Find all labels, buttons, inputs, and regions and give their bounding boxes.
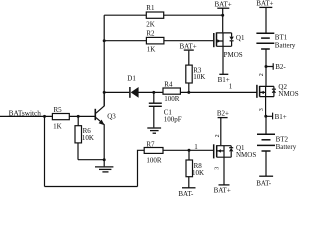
label 100pF (C1) [164, 115, 182, 123]
wire B2- to Q2 [265, 67, 267, 86]
svg-text:2: 2 [259, 73, 265, 76]
svg-text:Battery: Battery [275, 42, 296, 50]
label 100R (R7) [146, 157, 162, 165]
svg-text:10K: 10K [193, 73, 205, 81]
junction B2- [265, 65, 268, 68]
wire up to R7 [138, 150, 145, 186]
Q2 body diode bar [272, 88, 276, 90]
pin 2 (Q2) [259, 73, 265, 76]
emitter arrow Q3 [99, 120, 105, 126]
svg-text:B2-: B2- [275, 63, 286, 71]
port B1+ (under Q1) [219, 73, 228, 75]
label 10K (R8) [192, 169, 204, 177]
svg-text:NMOS: NMOS [278, 90, 298, 98]
svg-text:NMOS: NMOS [236, 151, 256, 159]
label R6 [83, 127, 92, 135]
wire D1 row [104, 91, 257, 93]
pin 3 (Q4) [215, 167, 221, 170]
wire R6 bottom to emitter junction [78, 159, 104, 161]
Q2 body diode [272, 89, 276, 93]
junction R5/R6/base [77, 115, 80, 118]
wire left bus vertical [103, 15, 105, 106]
label 100R (R4) [164, 95, 180, 103]
label Q2 [278, 83, 287, 91]
wire bottom run [45, 186, 138, 188]
svg-text:Q1: Q1 [236, 34, 245, 42]
label Q3 [107, 112, 116, 120]
diode D1 triangle [131, 87, 139, 98]
pin 2 (Q4) [215, 134, 221, 137]
label B1+ (right) [275, 113, 287, 121]
label C1 [164, 108, 173, 116]
svg-text:D1: D1 [127, 75, 136, 83]
resistor R6 [75, 116, 82, 159]
svg-text:1K: 1K [53, 123, 62, 131]
svg-text:BAT+: BAT+ [214, 186, 231, 194]
wire R2 row [104, 40, 213, 42]
capacitor C1 [149, 92, 162, 127]
label B2- [275, 63, 286, 71]
label R7 [146, 140, 155, 148]
label 10K (R6) [82, 134, 94, 142]
Q1 body diode bar [230, 40, 234, 42]
port B1+ tick (right) [266, 113, 273, 120]
Q4 substrate arrow [218, 149, 221, 152]
svg-text:1: 1 [194, 143, 198, 151]
label B1+ (under Q1) [218, 76, 230, 84]
ground (under C1) [147, 128, 161, 133]
pin 3 (Q2) [259, 108, 265, 111]
junction B1+ right [264, 115, 267, 118]
resistor R5 [52, 114, 69, 120]
node BATswitch label [9, 109, 42, 118]
label Battery (BT2) [276, 143, 297, 151]
junction R1/BAT+ [221, 14, 224, 17]
label BAT+ (above R3) [180, 42, 197, 50]
svg-text:BAT-: BAT- [178, 190, 194, 198]
port B2+ (above Q4) [218, 118, 228, 146]
svg-text:R4: R4 [164, 81, 173, 89]
ground (under Q3) [95, 160, 113, 172]
label D1 [127, 75, 136, 83]
svg-text:BAT+: BAT+ [256, 0, 273, 8]
svg-text:BAT+: BAT+ [215, 1, 232, 9]
svg-text:B2+: B2+ [217, 110, 229, 118]
label 1K (R2) [147, 46, 156, 54]
svg-text:R2: R2 [146, 29, 155, 37]
label 2K (R1) [146, 20, 155, 28]
power BAT+ (top right) [259, 7, 272, 33]
wire Q1 drain down [222, 46, 224, 74]
label R3 [193, 66, 202, 74]
svg-text:BAT-: BAT- [256, 179, 272, 187]
junction R2 tee [103, 39, 106, 42]
transistor Q1 PMOS [214, 32, 232, 47]
resistor R7 [144, 148, 163, 154]
label BAT+ (top middle) [215, 1, 232, 9]
label B2+ [217, 110, 229, 118]
svg-text:1K: 1K [147, 46, 156, 54]
svg-text:Q3: Q3 [107, 112, 116, 120]
label R4 [164, 81, 173, 89]
transistor Q3 [95, 92, 104, 159]
resistor R8 [186, 150, 193, 188]
svg-text:100R: 100R [164, 95, 180, 103]
svg-text:BATswitch: BATswitch [9, 109, 42, 118]
svg-text:B1+: B1+ [218, 76, 230, 84]
resistor R1 [146, 12, 163, 18]
transistor Q2 NMOS [257, 85, 274, 98]
svg-text:2K: 2K [146, 20, 155, 28]
label NMOS (Q4) [236, 151, 256, 159]
wire BAT+ to Q1 [222, 15, 224, 32]
power BAT+ (above R3) [184, 49, 194, 51]
label BAT- (under R8) [178, 190, 194, 198]
wire left vertical drop [44, 116, 46, 186]
label BAT+ (top right) [256, 0, 273, 8]
label R1 [146, 4, 155, 12]
resistor R3 [186, 51, 192, 93]
label BT1 [275, 33, 288, 41]
resistor R2 [146, 37, 164, 44]
wire R7 row [163, 149, 213, 151]
svg-text:R7: R7 [146, 140, 155, 148]
svg-text:100pF: 100pF [164, 115, 182, 123]
svg-text:3: 3 [215, 167, 221, 170]
battery BT1 [256, 33, 274, 66]
resistor R4 [163, 88, 180, 94]
port B2- tick [266, 63, 273, 70]
label Q1 [236, 34, 245, 42]
junction emitter/ground [103, 158, 106, 161]
label R5 [54, 106, 63, 114]
power BAT- (bottom right) [259, 175, 273, 177]
wire Q2 source down [265, 97, 267, 134]
label PMOS [224, 51, 243, 59]
node 1 label (upper) [229, 83, 233, 91]
diode D1 [129, 87, 131, 98]
svg-text:10K: 10K [192, 169, 204, 177]
label BAT- (bottom right) [256, 179, 272, 187]
power BAT+ (bottom) [219, 184, 230, 186]
svg-text:BAT+: BAT+ [180, 42, 197, 50]
svg-text:R1: R1 [146, 4, 155, 12]
junction R3 tap [187, 91, 190, 94]
junction R8 tap [188, 149, 191, 152]
Q1 substrate arrow [217, 39, 220, 42]
label Q4 [236, 144, 245, 152]
junction left drop [43, 115, 46, 118]
power BAT- (under R8) [182, 187, 196, 189]
wire BATswitch row left [0, 115, 95, 117]
junction D1 row tee [103, 91, 106, 94]
svg-text:3: 3 [259, 108, 265, 111]
svg-text:BT1: BT1 [275, 33, 288, 41]
node 1 label (lower) [194, 143, 198, 151]
Q1 body diode [229, 37, 233, 41]
label BAT+ (bottom) [214, 186, 231, 194]
label R2 [146, 29, 155, 37]
Q2 substrate arrow [260, 91, 263, 94]
svg-text:Battery: Battery [276, 143, 297, 151]
label 1K (R5) [53, 123, 62, 131]
label NMOS (Q2) [278, 90, 298, 98]
wire R1 row [104, 14, 223, 16]
transistor Q4 NMOS [214, 144, 232, 158]
svg-text:100R: 100R [146, 157, 162, 165]
svg-text:2: 2 [215, 134, 221, 137]
label R8 [194, 162, 203, 170]
Q4 body diode [229, 148, 233, 152]
wire Q4 source down [223, 157, 225, 185]
label Battery (BT1) [275, 42, 296, 50]
svg-text:10K: 10K [82, 134, 94, 142]
Q4 body diode bar [229, 147, 233, 149]
label BT2 [276, 136, 289, 144]
svg-text:B1+: B1+ [275, 113, 287, 121]
junction C1 tap [152, 91, 155, 94]
battery BT2 [257, 134, 275, 176]
svg-text:PMOS: PMOS [224, 51, 243, 59]
power BAT+ (top middle) [217, 8, 229, 15]
label 10K (R3) [193, 73, 205, 81]
svg-text:R5: R5 [54, 106, 63, 114]
